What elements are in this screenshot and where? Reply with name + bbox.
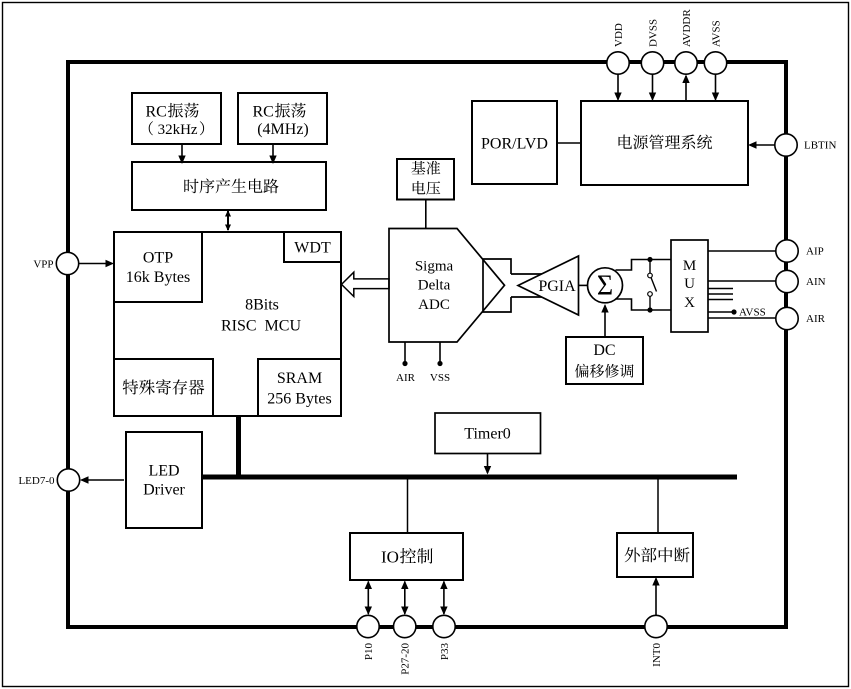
block 8-bit RISC MCU: [114, 232, 341, 416]
svg-text:AVSS: AVSS: [711, 20, 723, 47]
summing node sigma: [588, 268, 623, 303]
pin LED7-0: [18, 469, 79, 491]
svg-text:POR/LVD: POR/LVD: [481, 136, 548, 153]
wire LED driver to LED7-0: [80, 476, 124, 483]
block POR/LVD: [472, 101, 557, 184]
bus from MCU to peripherals: [236, 416, 241, 477]
block MUX: [671, 240, 708, 332]
pin P33: [433, 615, 455, 660]
svg-text:Sigma: Sigma: [415, 258, 454, 274]
pin P27-20: [394, 615, 416, 674]
pin AVDDR: [675, 9, 697, 75]
svg-text:AIR: AIR: [396, 372, 416, 384]
wire DVSS to power management: [649, 75, 656, 102]
svg-text:(4MHz): (4MHz): [257, 121, 309, 138]
pin AIN: [776, 270, 826, 292]
svg-text:Driver: Driver: [143, 482, 185, 499]
amplifier PGIA: [518, 256, 579, 315]
wire VPP to OTP: [79, 260, 115, 267]
svg-text:P27-20: P27-20: [400, 643, 412, 675]
pin AIP: [776, 240, 824, 262]
svg-text:OTP: OTP: [143, 250, 173, 267]
wire RC32k to timing generator: [178, 144, 185, 164]
wire VDD to power management: [614, 75, 621, 102]
svg-text:P33: P33: [439, 643, 451, 661]
svg-text:AIN: AIN: [806, 276, 826, 288]
wire voltage reference to ADC: [425, 200, 427, 229]
block LED Driver: [126, 432, 202, 528]
svg-text:IO: IO: [381, 547, 399, 566]
svg-text:DVSS: DVSS: [648, 19, 660, 47]
svg-text:RC: RC: [253, 103, 274, 120]
svg-text:AIP: AIP: [806, 246, 824, 258]
svg-text:256 Bytes: 256 Bytes: [267, 391, 331, 408]
wire ADC AIR stub: [396, 342, 416, 384]
svg-text:VDD: VDD: [613, 23, 625, 47]
block Timer0: [435, 413, 541, 454]
ADC output socket: [483, 259, 542, 312]
wire bus to external interrupt: [657, 480, 659, 534]
pin DVSS: [641, 19, 663, 74]
wire PGIA to sigma: [579, 284, 589, 286]
svg-text:AVSS: AVSS: [739, 307, 766, 319]
svg-text:P10: P10: [363, 643, 375, 661]
wire DC offset trim to sigma: [601, 304, 608, 337]
svg-text:8Bits: 8Bits: [245, 297, 279, 314]
peripheral bus: [202, 475, 737, 480]
block power management: [581, 101, 748, 185]
block SRAM 256 Bytes: [258, 359, 341, 416]
svg-text:LED7-0: LED7-0: [18, 475, 55, 487]
wire POR/LVD to power management: [557, 142, 581, 144]
wire MUX AVSS input: [708, 307, 766, 319]
block RC oscillator 4MHz: [238, 93, 327, 144]
wire AVSS to power management: [712, 75, 719, 102]
wire timing generator to MCU (bidirectional): [225, 210, 231, 231]
pin VPP: [33, 252, 78, 274]
pin LBTIN: [775, 134, 837, 156]
block special registers: [114, 359, 213, 416]
MUX spare input stubs: [708, 289, 733, 300]
wire MUX to AIP: [708, 250, 776, 252]
wire sigma to switch bottom: [616, 299, 672, 313]
svg-text:Delta: Delta: [418, 278, 451, 294]
svg-text:RISC MCU: RISC MCU: [221, 318, 301, 335]
svg-text:Σ: Σ: [597, 271, 613, 302]
pin AVSS: [704, 20, 726, 74]
svg-text:VPP: VPP: [33, 259, 53, 271]
pin INT0: [645, 615, 667, 667]
wire IO control to P27-20 (bidirectional): [401, 581, 408, 616]
wire MUX to AIN: [708, 280, 776, 282]
svg-text:ADC: ADC: [418, 297, 450, 313]
wire Timer0 to bus: [484, 454, 491, 475]
pin AIR: [776, 307, 826, 329]
block RC oscillator 32kHz: [132, 93, 221, 144]
svg-text:VSS: VSS: [430, 372, 450, 384]
wire bus to IO control: [407, 480, 409, 534]
block IO control: [350, 533, 463, 580]
svg-text:M: M: [683, 258, 696, 274]
block OTP 16k Bytes: [114, 232, 202, 302]
chip boundary: [68, 62, 786, 627]
block voltage reference: [397, 159, 454, 200]
svg-text:INT0: INT0: [651, 643, 663, 667]
block WDT: [284, 232, 341, 262]
svg-text:AIR: AIR: [806, 313, 826, 325]
svg-text:RC: RC: [146, 103, 167, 120]
svg-text:U: U: [684, 276, 695, 292]
wire IO control to P33 (bidirectional): [440, 581, 447, 616]
block Sigma Delta ADC: [389, 229, 505, 343]
switch S1: [648, 260, 657, 311]
svg-text:Timer0: Timer0: [464, 426, 511, 443]
svg-text:LED: LED: [148, 463, 179, 480]
svg-text:32kHz: 32kHz: [158, 122, 198, 138]
svg-text:LBTIN: LBTIN: [804, 140, 836, 152]
wire ADC to MCU (hollow arrow): [342, 272, 390, 296]
svg-text:WDT: WDT: [294, 240, 331, 257]
block timing generator: [132, 162, 326, 210]
svg-text:AVDDR: AVDDR: [681, 9, 693, 47]
svg-text:PGIA: PGIA: [538, 278, 576, 295]
svg-text:X: X: [684, 295, 695, 311]
block external interrupt: [617, 533, 693, 577]
wire sigma to switch top: [616, 257, 672, 270]
pin VDD: [607, 23, 629, 74]
block DC offset trim: [566, 337, 643, 384]
svg-text:16k Bytes: 16k Bytes: [126, 269, 190, 286]
wire RC4M to timing generator: [269, 144, 276, 164]
wire MUX to AIR: [708, 317, 776, 319]
wire ADC VSS stub: [430, 342, 450, 384]
wire INT0 to external interrupt: [652, 577, 659, 615]
pin P10: [357, 615, 379, 660]
wire LBTIN to power management: [748, 141, 775, 148]
wire IO control to P10 (bidirectional): [365, 581, 372, 616]
svg-text:DC: DC: [593, 342, 615, 359]
wire power management to AVDDR: [682, 75, 689, 102]
svg-text:SRAM: SRAM: [277, 370, 322, 387]
